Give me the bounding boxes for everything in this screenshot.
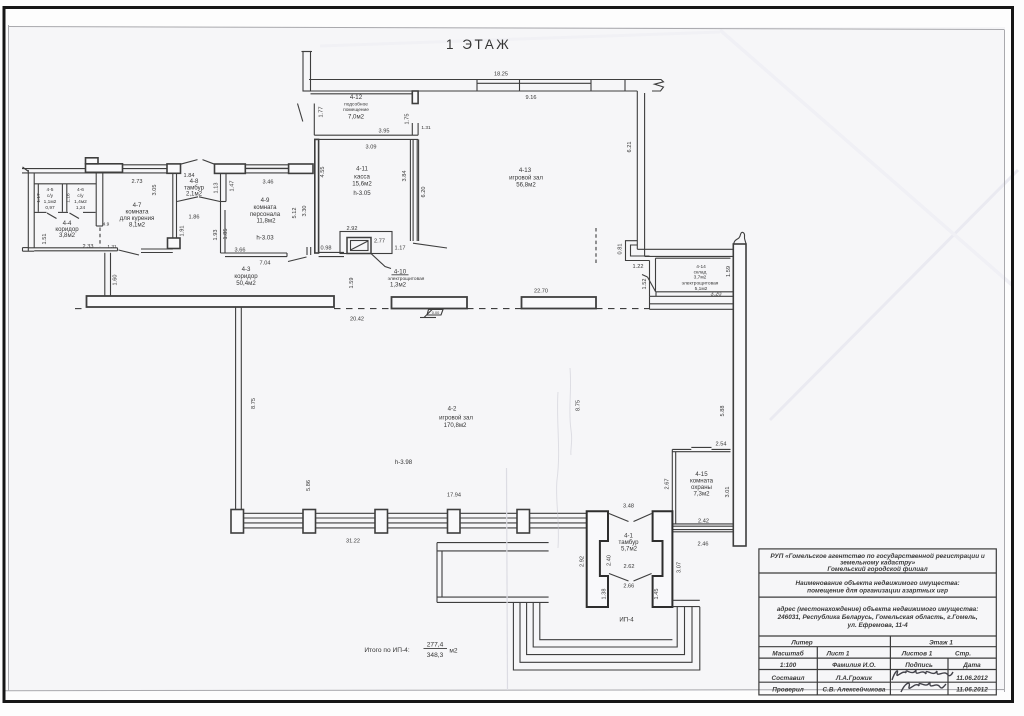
svg-text:2.33: 2.33 xyxy=(83,244,94,250)
svg-text:игровой зал: игровой зал xyxy=(439,415,473,422)
stair U 2 xyxy=(520,602,692,662)
svg-text:1.51: 1.51 xyxy=(42,234,48,245)
svg-text:3.95: 3.95 xyxy=(379,129,390,135)
svg-text:помещение: помещение xyxy=(343,108,369,113)
title row 2: object name xyxy=(796,579,960,595)
display rect 2 (22.70) xyxy=(522,297,597,309)
room 4-6 label xyxy=(74,187,87,211)
svg-text:Листов 1: Листов 1 xyxy=(901,651,933,658)
svg-text:1.45: 1.45 xyxy=(654,589,660,600)
dashed stub left of storefront xyxy=(75,308,87,310)
room 4-11 left wall xyxy=(315,139,319,253)
tambour 4-8 bottom door leaves xyxy=(177,197,220,202)
room 4-7 right wall xyxy=(173,174,177,249)
svg-text:1:100: 1:100 xyxy=(780,662,797,669)
svg-text:1.38: 1.38 xyxy=(601,589,607,600)
svg-text:3.05: 3.05 xyxy=(152,185,158,196)
svg-text:348,3: 348,3 xyxy=(427,652,444,659)
svg-text:1,24: 1,24 xyxy=(76,205,86,211)
svg-text:2.66: 2.66 xyxy=(623,584,634,590)
dashed line across hall xyxy=(334,308,650,310)
svg-text:2.46: 2.46 xyxy=(698,542,709,548)
svg-text:5.12: 5.12 xyxy=(292,208,298,219)
svg-text:игровой зал: игровой зал xyxy=(509,175,543,182)
svg-text:5,7м2: 5,7м2 xyxy=(621,546,638,553)
svg-text:электрощитовая: электрощитовая xyxy=(682,281,719,286)
signature 1 xyxy=(892,670,953,680)
left wing outer top wall xyxy=(22,165,310,173)
svg-text:1 ЭТАЖ: 1 ЭТАЖ xyxy=(446,37,511,52)
pillar P2 xyxy=(167,164,181,173)
pillar P1 cap xyxy=(86,158,99,164)
room 4-15 bottom walls xyxy=(672,524,733,532)
svg-text:11,8м2: 11,8м2 xyxy=(257,218,277,225)
leader line 4-10 xyxy=(371,254,391,269)
svg-text:2.73: 2.73 xyxy=(132,179,143,185)
wall 1.60 down to storefront xyxy=(105,253,111,296)
svg-text:3.84: 3.84 xyxy=(402,171,408,182)
porch left of tambour xyxy=(437,543,549,603)
svg-text:Подпись: Подпись xyxy=(905,661,933,669)
svg-text:Масштаб: Масштаб xyxy=(772,650,804,658)
svg-text:Итого по ИП-4:: Итого по ИП-4: xyxy=(364,647,410,654)
room 4-2 label xyxy=(439,406,473,430)
svg-text:4-6: 4-6 xyxy=(77,187,84,193)
stair U 1 xyxy=(513,602,699,670)
room 4-15 label xyxy=(690,471,714,498)
svg-text:4-3: 4-3 xyxy=(242,266,251,273)
tambour 4-1 left jamb xyxy=(587,511,608,607)
svg-text:Фамилия И.О.: Фамилия И.О. xyxy=(832,662,876,669)
svg-text:2.62: 2.62 xyxy=(624,564,635,570)
svg-text:3.46: 3.46 xyxy=(263,180,274,186)
svg-text:56,8м2: 56,8м2 xyxy=(516,182,536,189)
svg-text:подсобное: подсобное xyxy=(344,101,368,107)
stair U 3 xyxy=(527,602,685,654)
window pillar 2 xyxy=(303,510,316,534)
svg-text:1.59: 1.59 xyxy=(349,278,355,289)
svg-text:15,6м2: 15,6м2 xyxy=(352,181,372,188)
svg-text:9.16: 9.16 xyxy=(526,95,537,101)
svg-text:3.09: 3.09 xyxy=(366,145,377,151)
svg-text:3.66: 3.66 xyxy=(235,248,246,254)
row 4: liter / floor xyxy=(790,639,953,646)
display rect 1 xyxy=(392,297,468,309)
svg-text:6.21: 6.21 xyxy=(627,142,633,153)
svg-text:м2: м2 xyxy=(449,648,458,655)
room 4-12 label xyxy=(343,94,369,120)
svg-text:0.00: 0.00 xyxy=(432,311,439,315)
window pillar 1 xyxy=(231,510,244,534)
svg-text:адрес (местонахождение) объект: адрес (местонахождение) объекта недвижим… xyxy=(777,605,979,613)
svg-text:7,3м2: 7,3м2 xyxy=(693,491,710,498)
level mark under rect 1 xyxy=(420,309,443,318)
svg-text:1.22: 1.22 xyxy=(633,264,644,270)
svg-text:170,8м2: 170,8м2 xyxy=(444,422,467,429)
svg-text:7.04: 7.04 xyxy=(260,261,271,267)
tambour top door leaves xyxy=(609,514,652,522)
title row 3: address xyxy=(777,605,979,629)
jamb side lines right xyxy=(672,600,699,606)
fraction bar xyxy=(424,647,448,649)
room 4-12 left wall and door xyxy=(298,104,315,136)
top outer wall band xyxy=(309,80,661,92)
svg-text:ул. Ефремова, 11-4: ул. Ефремова, 11-4 xyxy=(846,622,908,629)
svg-text:50,4м2: 50,4м2 xyxy=(236,280,256,287)
svg-text:касса: касса xyxy=(354,174,370,181)
room 4-2 left wall xyxy=(236,307,242,513)
room 4-13 label xyxy=(509,167,543,189)
svg-text:5.86: 5.86 xyxy=(306,480,312,491)
svg-text:1.16: 1.16 xyxy=(66,193,72,203)
svg-text:2.92: 2.92 xyxy=(579,556,585,567)
svg-text:h-3.05: h-3.05 xyxy=(353,190,371,197)
svg-text:17.94: 17.94 xyxy=(447,493,461,499)
svg-text:31.22: 31.22 xyxy=(346,539,360,545)
room 4-7 corner notch xyxy=(168,238,181,249)
wall 4-12 / 4-11 xyxy=(314,135,418,139)
svg-text:с/у: с/у xyxy=(47,193,54,199)
room 4-7 label xyxy=(120,202,155,228)
dashed boundary 4-13 xyxy=(595,228,597,263)
svg-text:1,1м2: 1,1м2 xyxy=(44,199,57,205)
door swing to 4-14 xyxy=(642,275,656,292)
pillar P3 xyxy=(215,164,246,173)
faint pencil marks in hall xyxy=(557,368,572,548)
svg-text:11.06.2012: 11.06.2012 xyxy=(956,686,988,693)
svg-text:Этаж 1: Этаж 1 xyxy=(929,639,953,646)
right tall wall xyxy=(733,244,746,546)
crease top-right 2 xyxy=(720,30,1012,285)
wall 4-13 / 4-14 top xyxy=(637,249,733,258)
tambour 4-1 label xyxy=(619,533,640,553)
svg-text:С.В. Алексейчикова: С.В. Алексейчикова xyxy=(823,685,886,693)
svg-text:1.52: 1.52 xyxy=(642,279,648,290)
svg-text:1.91: 1.91 xyxy=(180,226,186,237)
chimney wall top xyxy=(302,52,313,92)
tambour 4-1 right jamb xyxy=(653,511,673,607)
room 4-10 label xyxy=(388,269,425,289)
bottom window band of hall 4-2 xyxy=(237,513,588,528)
room 4-9 label xyxy=(250,197,281,242)
pillar P4 xyxy=(289,164,313,173)
svg-text:1.77: 1.77 xyxy=(319,107,325,118)
svg-text:h-3.98: h-3.98 xyxy=(395,459,413,466)
svg-text:склад: склад xyxy=(694,270,707,275)
svg-text:3,7м2: 3,7м2 xyxy=(694,275,707,281)
svg-text:1.85: 1.85 xyxy=(223,229,229,240)
wall stub right of 4-9 door xyxy=(307,247,311,255)
svg-text:1.17: 1.17 xyxy=(395,245,406,251)
svg-text:Л.А.Грожик: Л.А.Грожик xyxy=(835,675,873,682)
room 4-14 label xyxy=(682,264,719,292)
title row 1: agency name xyxy=(770,552,985,573)
row 7: sostavil xyxy=(771,675,988,682)
crease top edge xyxy=(320,32,720,46)
svg-text:1,4м2: 1,4м2 xyxy=(74,199,87,205)
room 4-11 label xyxy=(352,166,372,198)
svg-text:5,1м2: 5,1м2 xyxy=(695,286,708,292)
svg-text:Гомельский городской филиал: Гомельский городской филиал xyxy=(827,565,927,573)
svg-text:0,97: 0,97 xyxy=(45,205,55,211)
svg-text:4-11: 4-11 xyxy=(356,166,368,173)
row 5: scale / sheet xyxy=(772,650,971,658)
svg-text:1.47: 1.47 xyxy=(230,181,236,192)
room 4-5/4-6 door swings xyxy=(47,213,79,219)
svg-text:18.25: 18.25 xyxy=(494,72,508,78)
svg-text:коридор: коридор xyxy=(234,273,258,280)
title block table frame xyxy=(759,549,996,695)
stair U 4 xyxy=(533,602,677,647)
svg-text:1.86: 1.86 xyxy=(189,215,200,221)
room 4-5 walls xyxy=(35,184,97,213)
svg-text:5.88: 5.88 xyxy=(720,406,726,417)
svg-text:7,0м2: 7,0м2 xyxy=(348,113,365,120)
stair U 5 xyxy=(540,602,673,639)
wall between 4-4 and 4-7 xyxy=(96,174,103,227)
svg-text:Лист 1: Лист 1 xyxy=(826,651,850,658)
room 4-3 label xyxy=(234,266,258,287)
room 4-9 bottom wall xyxy=(221,253,288,257)
svg-text:2.77: 2.77 xyxy=(374,239,385,245)
svg-text:помещение для организации аза: помещение для организации азартных игр xyxy=(807,587,948,595)
svg-text:4.9: 4.9 xyxy=(103,222,110,228)
svg-text:Дата: Дата xyxy=(962,662,981,669)
tambour 4-8 label xyxy=(184,173,205,198)
svg-text:3.48: 3.48 xyxy=(623,504,634,510)
svg-text:РУП «Гомельское агентство по г: РУП «Гомельское агентство по государстве… xyxy=(770,552,985,560)
svg-text:2.40: 2.40 xyxy=(606,555,612,566)
lower double wall below 4-14 xyxy=(650,292,734,310)
svg-text:1.59: 1.59 xyxy=(726,266,732,277)
pillar P1 xyxy=(86,164,123,173)
svg-text:1.60: 1.60 xyxy=(113,275,119,286)
row 8: proveril xyxy=(772,685,988,693)
room 4-15 top wall xyxy=(672,447,730,451)
room 4-12 right wall lower xyxy=(412,123,418,135)
svg-text:Наименование объекта недвижимо: Наименование объекта недвижимого имущест… xyxy=(796,579,960,587)
svg-text:4.55: 4.55 xyxy=(320,167,326,178)
svg-text:2.67: 2.67 xyxy=(664,479,670,490)
left outer wall xyxy=(23,170,35,251)
svg-text:Составил: Составил xyxy=(771,675,804,682)
room 4-4 label xyxy=(55,220,79,239)
room 4-14 bottom wall xyxy=(650,258,734,296)
wall step notch 0.81 xyxy=(626,241,650,261)
svg-text:1.31: 1.31 xyxy=(421,125,431,131)
faint vertical crease xyxy=(507,468,508,690)
crease top-right xyxy=(770,170,1018,420)
svg-text:3,8м2: 3,8м2 xyxy=(59,232,76,239)
storefront rectangle corridor 4-3 xyxy=(87,296,335,307)
svg-text:2,1м2: 2,1м2 xyxy=(186,191,203,198)
svg-text:4-5: 4-5 xyxy=(47,187,54,193)
svg-text:0.81: 0.81 xyxy=(618,244,624,255)
room 4-7 bottom wall xyxy=(141,249,173,253)
svg-text:h-3.03: h-3.03 xyxy=(256,235,274,242)
svg-text:1,3м2: 1,3м2 xyxy=(390,282,407,289)
tambour 4-8 entry door leaves xyxy=(181,160,215,165)
room 4-12 right wall stub xyxy=(412,91,418,104)
svg-text:8.75: 8.75 xyxy=(251,398,257,409)
electro panel box 4-10 xyxy=(340,232,392,254)
left wing bottom wall xyxy=(28,248,117,251)
window pillar 4 xyxy=(448,510,461,534)
wall break curl top xyxy=(733,232,746,246)
svg-text:ИП-4: ИП-4 xyxy=(619,617,634,624)
svg-text:8.75: 8.75 xyxy=(575,400,581,411)
svg-text:20.42: 20.42 xyxy=(350,317,364,323)
svg-text:4-13: 4-13 xyxy=(519,167,532,174)
svg-text:277,4: 277,4 xyxy=(427,642,444,649)
window pillar 5 xyxy=(517,510,530,534)
svg-text:246031, Республика Беларусь, Г: 246031, Республика Беларусь, Гомельская … xyxy=(777,613,978,621)
door swing 4-11 to 4-13 xyxy=(413,243,447,248)
door swing 4-9 xyxy=(288,257,307,262)
svg-text:22.70: 22.70 xyxy=(534,289,548,295)
svg-text:3.07: 3.07 xyxy=(676,562,682,573)
svg-text:комната: комната xyxy=(253,204,277,211)
room 4-11 right wall xyxy=(410,139,418,241)
door swing 4-4 to 4-3 xyxy=(119,250,140,255)
svg-text:2.54: 2.54 xyxy=(716,442,727,448)
walls beside 4-10 box xyxy=(319,252,344,256)
signature 2 xyxy=(901,682,946,692)
svg-text:Проверил: Проверил xyxy=(772,686,803,693)
tambour middle door leaves xyxy=(609,574,652,582)
room 4-12 ceiling inner line xyxy=(311,93,413,95)
svg-text:с/у: с/у xyxy=(77,193,84,199)
svg-text:1.75: 1.75 xyxy=(405,114,411,125)
svg-text:Стр.: Стр. xyxy=(955,651,971,658)
svg-text:1.13: 1.13 xyxy=(214,183,220,194)
svg-text:1.17: 1.17 xyxy=(36,193,42,203)
svg-text:4-14: 4-14 xyxy=(696,264,706,270)
svg-text:4-2: 4-2 xyxy=(448,406,457,413)
svg-text:3.30: 3.30 xyxy=(302,206,308,217)
svg-text:4-12: 4-12 xyxy=(350,94,363,101)
window pillar 3 xyxy=(375,510,388,534)
wall between 4-8 and 4-9 xyxy=(221,174,227,254)
svg-text:1.31: 1.31 xyxy=(107,244,117,250)
room 4-15 left wall xyxy=(672,449,675,524)
svg-text:11.06.2012: 11.06.2012 xyxy=(956,675,988,682)
svg-text:1.93: 1.93 xyxy=(213,230,219,241)
svg-text:3.01: 3.01 xyxy=(725,487,731,498)
top wall break symbol xyxy=(652,80,664,92)
svg-text:0.98: 0.98 xyxy=(321,246,332,252)
dashed wall x=100 xyxy=(99,228,101,247)
room 4-5 label xyxy=(44,187,57,211)
svg-text:8,1м2: 8,1м2 xyxy=(129,221,146,228)
room 4-13 right wall xyxy=(637,80,644,257)
row 6: 1:100 / names xyxy=(780,661,981,669)
svg-text:Литер: Литер xyxy=(790,639,812,646)
svg-text:4-9: 4-9 xyxy=(261,197,270,204)
svg-text:6.20: 6.20 xyxy=(421,187,427,198)
